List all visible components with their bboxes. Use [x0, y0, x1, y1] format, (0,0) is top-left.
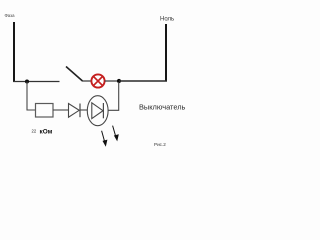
lamp HL1 body: [91, 74, 104, 87]
wire node A down to resistor: [27, 82, 36, 111]
lamp HL1 cross: [93, 76, 103, 86]
wire node B to neutral corner: [119, 80, 167, 82]
wire resistor to diode: [53, 109, 69, 111]
wire LED up to node B: [108, 82, 119, 110]
wire neutral feed (right vertical): [165, 24, 167, 81]
switch SA1 blade (open): [66, 67, 83, 82]
wire phase feed (left vertical): [13, 22, 15, 82]
wire lamp to node B: [105, 80, 119, 82]
svg-text:22: 22: [32, 129, 37, 134]
wire main top run, left of switch: [13, 81, 59, 83]
node A junction dot: [25, 80, 29, 84]
svg-text:Фаза: Фаза: [5, 13, 16, 18]
LED emission arrow 2: [113, 126, 119, 142]
wire switch to lamp: [82, 80, 91, 82]
LED HL2 triangle: [92, 103, 103, 119]
diode VD1 cathode bar: [79, 104, 81, 118]
LED HL2 cathode bar: [102, 103, 104, 118]
diode VD1 triangle: [69, 104, 80, 118]
resistor R1 22 кОм: [36, 104, 54, 118]
svg-text:Выключатель: Выключатель: [139, 103, 186, 112]
LED HL2 body circle: [87, 96, 108, 126]
svg-text:Ноль: Ноль: [160, 17, 174, 23]
svg-text:Рис.2: Рис.2: [154, 142, 166, 147]
svg-text:кОм: кОм: [40, 129, 53, 136]
node B junction dot: [117, 79, 121, 83]
LED emission arrow 1: [102, 131, 108, 147]
wire diode to LED: [80, 109, 87, 111]
